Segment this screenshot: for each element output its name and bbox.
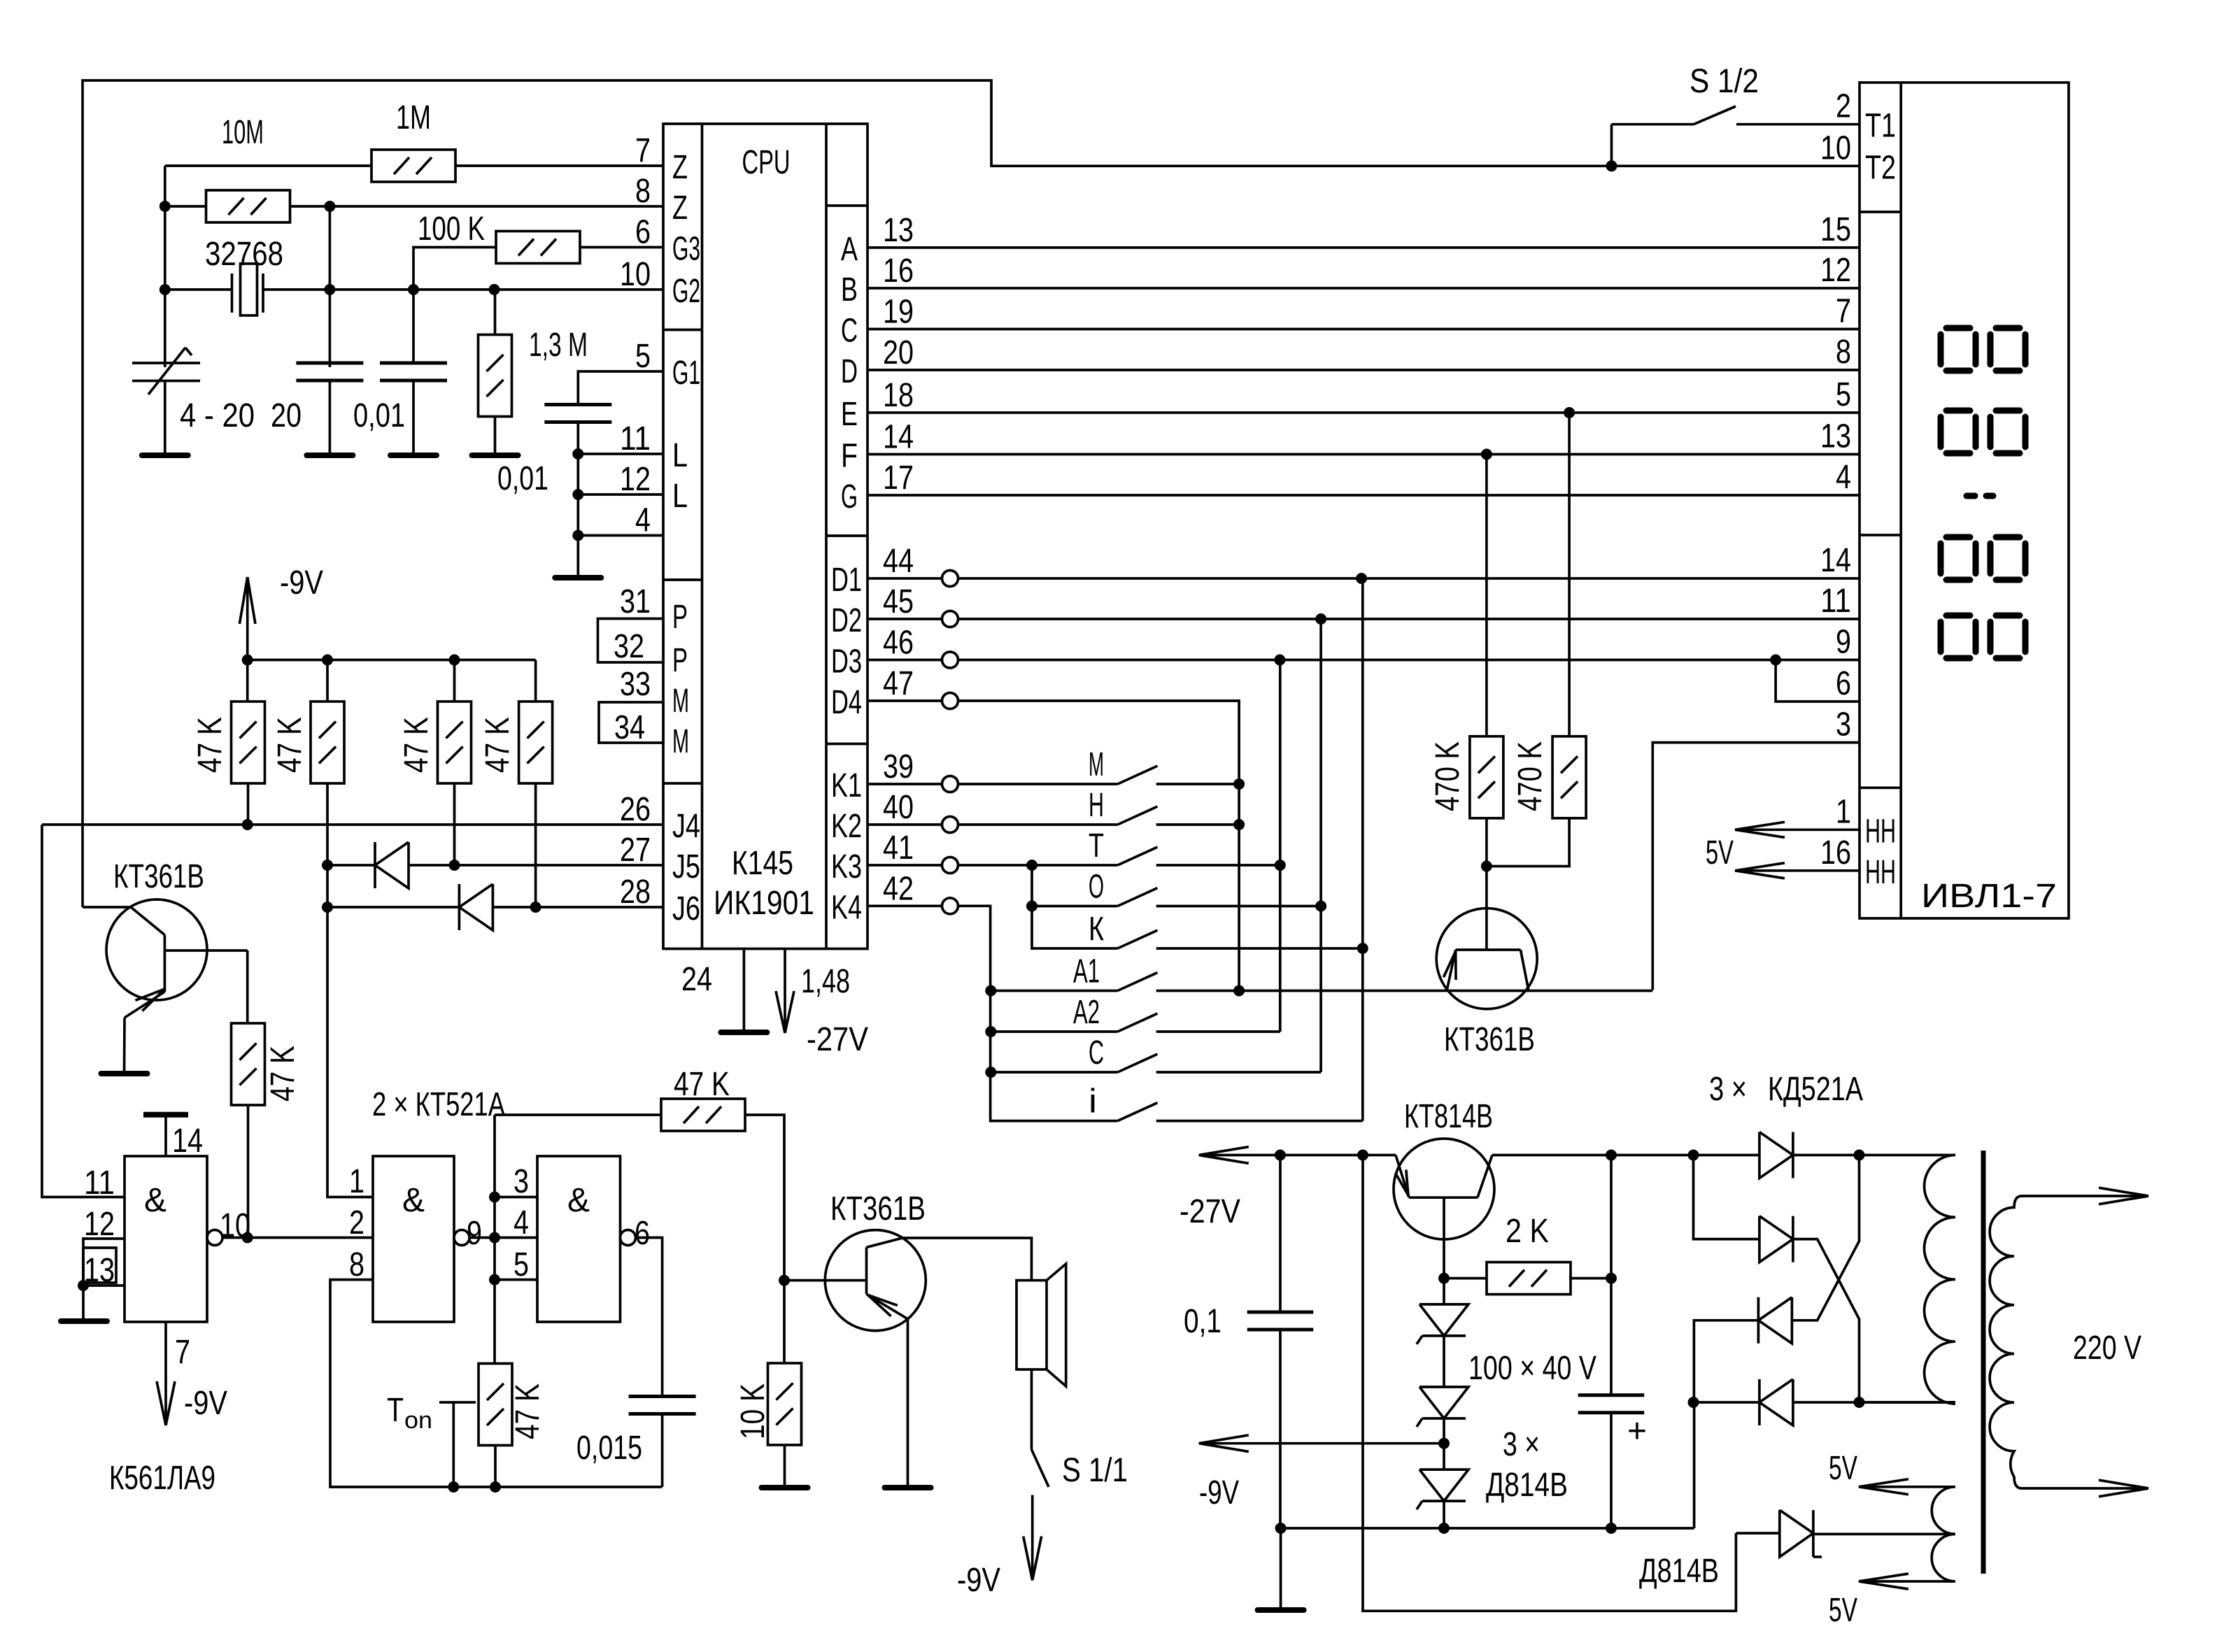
node bridge B bbox=[1688, 1397, 1699, 1408]
node T bus bbox=[1275, 860, 1286, 871]
wire D1 net bbox=[958, 577, 1860, 580]
node rail R2 bbox=[322, 655, 333, 666]
wire K3 to T column bbox=[958, 864, 1033, 867]
wire cap 0,01 to ground bbox=[412, 380, 415, 455]
wire J5 mid segment bbox=[409, 864, 663, 867]
svg-text:1: 1 bbox=[349, 1163, 364, 1200]
svg-text:5V: 5V bbox=[1706, 834, 1734, 871]
svg-text:13: 13 bbox=[883, 212, 914, 249]
node C4 bracket tap bbox=[1770, 655, 1781, 666]
CPU right strip section line 3 bbox=[826, 743, 867, 746]
svg-text:Т: Т bbox=[1089, 827, 1104, 864]
wire segment D CPU to display bbox=[867, 369, 1860, 371]
svg-text:F: F bbox=[841, 438, 858, 475]
resistor 47K R5 bbox=[232, 1023, 265, 1105]
node bottom rail left bbox=[1275, 1523, 1287, 1534]
switch О blade bbox=[1118, 888, 1158, 906]
wire J6 right segment bbox=[493, 906, 663, 909]
svg-text:КД521А: КД521А bbox=[1768, 1071, 1863, 1108]
resistor 470K R8 bbox=[1470, 736, 1503, 818]
wire K contact bbox=[1156, 947, 1363, 950]
ground VT2 emitter bbox=[885, 1485, 931, 1490]
wire base to 2K bbox=[1444, 1277, 1488, 1280]
wire 1M resistor to CPU pin 7 bbox=[455, 164, 663, 167]
node output 47K R5 bbox=[242, 1232, 253, 1244]
display strip section line 1 bbox=[1860, 211, 1901, 213]
wire speaker to switch bbox=[1030, 1369, 1033, 1450]
svg-text:12: 12 bbox=[620, 461, 651, 498]
arrow -9V up bbox=[239, 577, 247, 624]
resistor 47K R3 bbox=[438, 702, 472, 783]
wire cap 0,01 up to 100K bbox=[413, 248, 496, 364]
capacitor 0,01 G1 bbox=[544, 403, 611, 406]
resistor 1M bbox=[371, 150, 455, 182]
CPU left strip divider bbox=[701, 124, 704, 949]
gate DD1.1 pin 14 bar bbox=[143, 1112, 188, 1118]
wire D3 stub bbox=[867, 659, 942, 662]
svg-text:А2: А2 bbox=[1073, 994, 1100, 1031]
svg-text:9: 9 bbox=[467, 1215, 482, 1252]
wire 2K right bbox=[1569, 1277, 1611, 1280]
wire T switch left bbox=[1032, 864, 1118, 867]
svg-text:CPU: CPU bbox=[742, 144, 791, 181]
svg-text:D4: D4 bbox=[831, 684, 862, 721]
svg-text:4: 4 bbox=[1836, 459, 1851, 496]
resistor 470K R9 bbox=[1552, 736, 1586, 818]
wire segment F CPU to display bbox=[867, 453, 1860, 456]
svg-text:G2: G2 bbox=[672, 273, 700, 310]
wire cap 0,015 down bbox=[661, 1414, 664, 1488]
svg-text:К561ЛА9: К561ЛА9 bbox=[109, 1460, 215, 1497]
svg-text:47 K: 47 K bbox=[398, 717, 435, 773]
svg-text:&: & bbox=[567, 1182, 590, 1219]
wire VT2 emitter to ground bbox=[907, 1319, 909, 1488]
transistor VT2 КТ361В bbox=[825, 1230, 926, 1331]
seven-segment digit group 4 bbox=[1946, 613, 1970, 619]
node gate3 pin4 bbox=[489, 1232, 500, 1244]
svg-text:32: 32 bbox=[614, 628, 644, 665]
display box bbox=[1860, 83, 2069, 918]
ground cap 0,01 bbox=[390, 453, 437, 458]
gate DD1.1 output circle bbox=[207, 1230, 222, 1246]
svg-text:Н: Н bbox=[1089, 787, 1104, 824]
wire ground drop bbox=[1280, 1528, 1282, 1610]
svg-text:D: D bbox=[841, 353, 858, 390]
wire gate1 output to gate2 pin 2 bbox=[222, 1237, 373, 1239]
wire O contact bbox=[1156, 905, 1321, 908]
resistor 47K R7 bbox=[661, 1099, 745, 1131]
resistor 10M bbox=[206, 190, 290, 222]
switch К blade bbox=[1118, 930, 1158, 948]
wire cap100 column bbox=[1610, 1155, 1613, 1395]
svg-text:3: 3 bbox=[1836, 706, 1851, 743]
wire J4 to gate1 pin 11 bbox=[42, 825, 125, 1197]
wire D2 stub bbox=[867, 618, 942, 620]
transformer 220V winding bbox=[1990, 1196, 2022, 1488]
svg-text:Z: Z bbox=[672, 149, 688, 186]
svg-text:S 1/1: S 1/1 bbox=[1062, 1452, 1128, 1489]
node E to 470K bbox=[1564, 407, 1575, 418]
svg-text:G: G bbox=[841, 478, 858, 515]
terminal circle D3 bbox=[942, 652, 958, 668]
svg-text:14: 14 bbox=[172, 1123, 203, 1160]
wire gate3 out to cap 0,015 bbox=[636, 1238, 663, 1397]
node F to 470K bbox=[1481, 449, 1492, 460]
svg-text:КТ361В: КТ361В bbox=[1444, 1021, 1535, 1058]
wire G1 cap down bbox=[576, 422, 579, 578]
svg-text:9: 9 bbox=[1836, 624, 1851, 661]
svg-text:13: 13 bbox=[1820, 418, 1851, 455]
svg-text:4: 4 bbox=[635, 502, 651, 539]
svg-text:1M: 1M bbox=[396, 99, 431, 136]
wire CPU supply lead bbox=[784, 949, 786, 1034]
node D1 bus bbox=[1356, 573, 1367, 584]
node J6 R4 bbox=[530, 902, 541, 913]
diode VD6 КД521А bbox=[1759, 1132, 1793, 1179]
ground CPU pin 24 bbox=[721, 1030, 767, 1035]
svg-text:46: 46 bbox=[883, 625, 914, 662]
svg-text:7: 7 bbox=[1836, 293, 1851, 330]
wire D1 to winding top bbox=[1793, 1154, 1955, 1157]
CPU pin 32 box bbox=[598, 619, 664, 663]
svg-text:1,3 M: 1,3 M bbox=[529, 327, 588, 364]
svg-text:4: 4 bbox=[514, 1204, 529, 1241]
svg-text:24: 24 bbox=[681, 961, 712, 998]
svg-text:2 × КТ521А: 2 × КТ521А bbox=[372, 1086, 505, 1123]
wire VT1 collector down to 47K R5 bbox=[246, 950, 249, 983]
svg-text:15: 15 bbox=[1820, 211, 1851, 248]
node winding bottom bbox=[1854, 1397, 1865, 1408]
svg-text:K2: K2 bbox=[831, 808, 862, 845]
wire NN1 with arrow bbox=[1735, 828, 1860, 831]
wire -27V rail right bbox=[1492, 1154, 1694, 1157]
svg-text:М: М bbox=[1089, 746, 1104, 783]
arrow 220V top bbox=[2099, 1188, 2148, 1196]
transistor VT3 КТ361В bbox=[1436, 909, 1537, 1009]
svg-text:6: 6 bbox=[635, 1215, 650, 1252]
svg-text:3 ×: 3 × bbox=[1503, 1426, 1540, 1463]
CPU pin 34 box bbox=[599, 702, 663, 743]
svg-text:Д814В: Д814В bbox=[1639, 1553, 1719, 1590]
svg-text:M: M bbox=[672, 723, 689, 760]
diode VD1 КД521А bbox=[375, 842, 409, 888]
svg-text:32768: 32768 bbox=[205, 236, 283, 273]
wire D4 stub bbox=[867, 699, 942, 702]
wire -9V tap bbox=[1199, 1442, 1444, 1445]
svg-text:10: 10 bbox=[620, 256, 651, 293]
ground cap 20 bbox=[306, 453, 353, 458]
resistor 47K R2 bbox=[311, 702, 344, 783]
svg-text:20: 20 bbox=[271, 397, 302, 434]
switch S1/1 blade bbox=[1032, 1450, 1049, 1488]
svg-text:19: 19 bbox=[883, 294, 914, 331]
svg-text:ИВЛ1-7: ИВЛ1-7 bbox=[1921, 878, 2057, 915]
node D2 bus bbox=[1315, 613, 1326, 625]
wire 100K to CPU pin 6 bbox=[580, 246, 663, 249]
wire zener jog to -27V dropper bbox=[1363, 1155, 1736, 1611]
svg-text:-9V: -9V bbox=[184, 1385, 227, 1422]
wire -9V rail bbox=[248, 659, 536, 662]
diode VD8 КД521А bbox=[1758, 1297, 1792, 1344]
wire S1/1 lower stem bbox=[1031, 1495, 1034, 1581]
svg-text:ИК1901: ИК1901 bbox=[714, 885, 814, 922]
svg-text:470 K: 470 K bbox=[1429, 741, 1466, 811]
transistor VT4 КТ814В bbox=[1394, 1139, 1494, 1239]
svg-text:10 K: 10 K bbox=[735, 1383, 772, 1439]
node crystal left bbox=[160, 284, 171, 295]
svg-text:42: 42 bbox=[883, 870, 914, 907]
svg-text:3: 3 bbox=[514, 1163, 529, 1200]
resistor 1,3M vertical bbox=[479, 335, 512, 417]
svg-text:47 K: 47 K bbox=[674, 1066, 730, 1103]
wire gate3 pin 5 bbox=[495, 1279, 537, 1281]
svg-text:8: 8 bbox=[349, 1246, 364, 1283]
svg-text:-27V: -27V bbox=[1180, 1193, 1240, 1230]
svg-text:D3: D3 bbox=[831, 643, 862, 681]
node J5 R3 bbox=[449, 860, 460, 871]
switch А1 blade bbox=[1118, 973, 1158, 991]
ground varicap bbox=[142, 453, 188, 458]
wire D1 stub bbox=[867, 577, 942, 580]
node D3 bus bbox=[1274, 655, 1285, 666]
node VT4 base bbox=[1438, 1273, 1450, 1284]
switch С blade bbox=[1118, 1054, 1158, 1072]
svg-text:i: i bbox=[1089, 1083, 1097, 1120]
display strip divider bbox=[1899, 83, 1902, 918]
svg-text:M: M bbox=[672, 683, 689, 720]
svg-text:T1: T1 bbox=[1865, 108, 1896, 145]
svg-text:Д814В: Д814В bbox=[1486, 1467, 1568, 1504]
svg-text:100 × 40 V: 100 × 40 V bbox=[1468, 1350, 1596, 1387]
crystal 32768 bbox=[231, 273, 234, 313]
gate DD1.3 output circle bbox=[621, 1230, 636, 1246]
svg-text:5V: 5V bbox=[1829, 1592, 1857, 1629]
svg-text:8: 8 bbox=[635, 173, 651, 210]
wire T2 loop top bbox=[83, 80, 1860, 907]
svg-text:L: L bbox=[672, 437, 688, 474]
wire bottom rail up to bridge bbox=[1693, 1402, 1696, 1528]
svg-text:3 ×: 3 × bbox=[1709, 1071, 1747, 1108]
svg-text:20: 20 bbox=[883, 334, 914, 371]
seven-segment digit group 3 bbox=[1946, 534, 1970, 541]
wire O switch left bbox=[1032, 905, 1118, 908]
wire segment B CPU to display bbox=[867, 287, 1860, 290]
svg-text:J6: J6 bbox=[672, 890, 700, 927]
svg-text:6: 6 bbox=[635, 214, 651, 251]
svg-text:5: 5 bbox=[635, 338, 651, 375]
resistor 100K bbox=[496, 232, 580, 264]
bus D2 column bbox=[1319, 619, 1322, 1072]
svg-text:J5: J5 bbox=[672, 848, 700, 885]
transformer 5V winding bbox=[1932, 1487, 1955, 1581]
svg-text:B: B bbox=[841, 271, 858, 308]
svg-text:47 K: 47 K bbox=[264, 1046, 302, 1102]
terminal circle K2 bbox=[942, 817, 958, 833]
svg-text:+: + bbox=[1627, 1413, 1647, 1450]
wire bottom bridge row bbox=[1694, 1401, 1759, 1404]
CPU body bbox=[663, 124, 867, 949]
wire segment C CPU to display bbox=[867, 328, 1860, 331]
wire T2 to base bbox=[83, 906, 131, 909]
wire J6 left segment bbox=[327, 906, 459, 909]
svg-text:А1: А1 bbox=[1073, 953, 1100, 990]
box around pin 13 bbox=[83, 1248, 116, 1283]
arrow 5V bottom bbox=[1859, 1574, 1908, 1581]
svg-text:41: 41 bbox=[883, 829, 914, 867]
node winding top bbox=[1854, 1150, 1865, 1161]
speaker bbox=[1017, 1281, 1047, 1369]
svg-text:45: 45 bbox=[883, 583, 914, 620]
svg-text:&: & bbox=[144, 1182, 167, 1219]
CPU left strip section line 1 bbox=[663, 329, 702, 332]
capacitor 0,015 bbox=[629, 1395, 696, 1398]
svg-text:2: 2 bbox=[1836, 88, 1851, 125]
svg-text:L: L bbox=[672, 478, 688, 515]
arrow -9V power bbox=[1199, 1435, 1249, 1444]
svg-text:16: 16 bbox=[1820, 834, 1851, 871]
node VT3 base bbox=[1481, 861, 1492, 872]
wire segment A CPU to display bbox=[867, 246, 1860, 249]
CPU right strip section line 1 bbox=[826, 204, 867, 207]
node rail R3 bbox=[449, 655, 460, 666]
wire VT1 emitter to ground bbox=[123, 1018, 126, 1074]
node A1 bus bbox=[1233, 985, 1245, 997]
svg-text:4 - 20: 4 - 20 bbox=[180, 397, 255, 434]
svg-text:G1: G1 bbox=[672, 355, 700, 392]
svg-text:40: 40 bbox=[883, 789, 914, 826]
bus D1 column bbox=[1361, 578, 1364, 1121]
wire K4 stub bbox=[867, 904, 942, 907]
node J4 R1 bbox=[242, 819, 253, 830]
node 2K column bbox=[1606, 1273, 1617, 1284]
wire feedback column bbox=[493, 1115, 496, 1362]
wire C contact to bus bbox=[1156, 1071, 1321, 1074]
wire segment G CPU to display bbox=[867, 494, 1860, 497]
CPU right strip divider bbox=[825, 124, 828, 949]
node bottom rail Ton bbox=[448, 1481, 459, 1493]
switch Н blade bbox=[1118, 806, 1158, 825]
wire J4 net bbox=[42, 823, 663, 826]
svg-text:КТ814В: КТ814В bbox=[1404, 1098, 1493, 1135]
svg-text:33: 33 bbox=[620, 666, 651, 703]
seven-segment digit group 1 bbox=[1946, 325, 1970, 332]
wire varicap to ground bbox=[164, 381, 167, 456]
node O bus bbox=[1315, 901, 1326, 912]
resistor 47K R4 bbox=[519, 702, 553, 783]
svg-text:7: 7 bbox=[175, 1334, 190, 1371]
wire C switch left bbox=[991, 1071, 1117, 1074]
ground 1,3M bbox=[472, 453, 518, 458]
wire vertical left osc column bbox=[164, 166, 167, 367]
svg-text:12: 12 bbox=[1820, 252, 1851, 289]
svg-text:Z: Z bbox=[672, 190, 688, 227]
svg-text:26: 26 bbox=[620, 791, 651, 828]
node pin 4 bbox=[572, 530, 583, 541]
svg-text:5: 5 bbox=[1836, 376, 1851, 413]
svg-text:18: 18 bbox=[883, 377, 914, 414]
terminal circle D4 bbox=[942, 693, 958, 709]
svg-text:&: & bbox=[402, 1182, 425, 1219]
wire i contact to bus bbox=[1156, 1120, 1363, 1123]
svg-text:47 K: 47 K bbox=[271, 717, 309, 773]
diode VD2 КД521А bbox=[459, 884, 493, 930]
svg-text:16: 16 bbox=[883, 252, 914, 290]
svg-text:K4: K4 bbox=[831, 889, 862, 926]
svg-text:47 K: 47 K bbox=[479, 717, 516, 773]
node L pin11 bbox=[572, 448, 583, 460]
svg-text:5V: 5V bbox=[1829, 1450, 1857, 1487]
svg-text:47 K: 47 K bbox=[509, 1383, 546, 1439]
wire -27V rail left bbox=[1199, 1154, 1396, 1157]
wire VT2 collector to speaker bbox=[902, 1238, 1032, 1281]
wire J5/J6 column down to gate2 pin1 bbox=[327, 865, 373, 1197]
capacitor 0,1 bbox=[1247, 1311, 1314, 1314]
wire 5V bottom lead bbox=[1859, 1580, 1955, 1583]
wire H switch left bbox=[958, 823, 1118, 826]
wire gate2 out to gate3 pin4 bbox=[469, 1237, 537, 1239]
node bottom rail R6 bbox=[490, 1481, 501, 1493]
wire pin 11 bbox=[578, 453, 663, 455]
svg-text:11: 11 bbox=[84, 1165, 115, 1202]
trimmer capacitor 4-20 bbox=[132, 362, 200, 364]
svg-text:220 V: 220 V bbox=[2073, 1330, 2141, 1367]
terminal circle D1 bbox=[942, 571, 958, 587]
wire T/O/K column bbox=[1032, 865, 1118, 948]
wire K1 stub bbox=[867, 783, 942, 785]
svg-text:14: 14 bbox=[1820, 542, 1851, 579]
svg-text:K1: K1 bbox=[831, 767, 862, 804]
node K bus bbox=[1357, 943, 1368, 954]
arrow 5V top bbox=[1859, 1479, 1908, 1487]
ground G1 cap bbox=[555, 575, 601, 581]
node rail R1 bbox=[242, 655, 253, 666]
node M bus bbox=[1233, 778, 1245, 790]
gate DD1.3 box bbox=[537, 1156, 621, 1322]
wire D4 to winding bottom bbox=[1793, 1401, 1955, 1404]
display strip section line 3 bbox=[1860, 786, 1901, 789]
node rail 0,1 cap bbox=[1275, 1150, 1286, 1161]
wire NN2 with arrow bbox=[1735, 869, 1860, 872]
svg-text:0,1: 0,1 bbox=[1184, 1303, 1221, 1340]
svg-text:C: C bbox=[841, 313, 858, 350]
svg-text:J4: J4 bbox=[672, 808, 700, 845]
svg-text:on: on bbox=[404, 1407, 432, 1434]
switch S1/2 blade bbox=[1694, 106, 1736, 124]
svg-text:8: 8 bbox=[1836, 334, 1851, 371]
svg-text:T: T bbox=[387, 1392, 404, 1429]
svg-text:27: 27 bbox=[620, 832, 651, 869]
svg-text:-9V: -9V bbox=[957, 1562, 1000, 1599]
wire D2 net bbox=[958, 618, 1860, 620]
arrow gate1 pin7 -9V bbox=[164, 1381, 167, 1383]
node gate3 pin5 bbox=[489, 1274, 500, 1286]
terminal circle K3 bbox=[942, 857, 958, 874]
node crystal right bbox=[324, 284, 335, 295]
svg-text:28: 28 bbox=[620, 874, 651, 911]
ground 10K bbox=[762, 1485, 808, 1490]
wire S1/2 contact to display T1 bbox=[1736, 123, 1860, 126]
wire cap20 to ground bbox=[329, 380, 332, 455]
switch А2 blade bbox=[1118, 1013, 1158, 1032]
seven-segment digit group 2 bbox=[1946, 408, 1970, 414]
colon dashes bbox=[1967, 493, 1975, 499]
CPU right strip section line 2 bbox=[826, 534, 867, 537]
svg-text:НН: НН bbox=[1865, 813, 1896, 850]
svg-text:14: 14 bbox=[883, 419, 914, 456]
node zener -9V tap bbox=[1438, 1438, 1450, 1449]
node 1,3M tap bbox=[489, 284, 500, 295]
wire A2 contact to bus bbox=[1156, 1030, 1280, 1033]
